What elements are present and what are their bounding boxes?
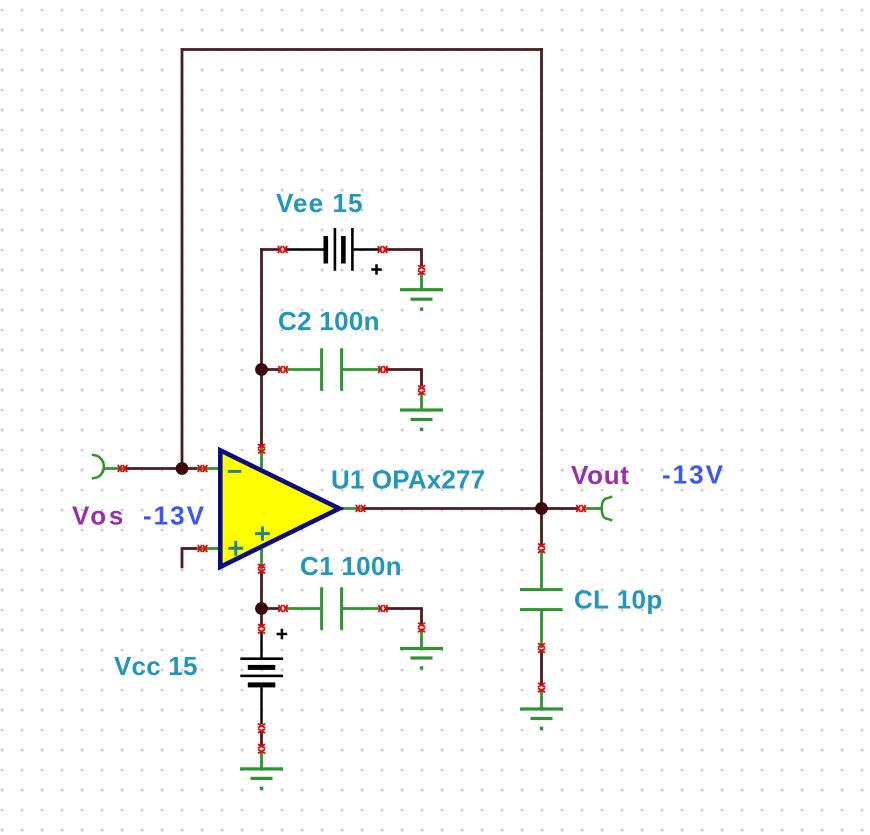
wire op-amp output to node B: [364, 507, 542, 510]
wire battery Vee right to ground: [385, 248, 422, 266]
pin marker battery Vcc top: [258, 624, 265, 633]
battery Vcc top lead: [260, 632, 262, 658]
pin marker battery Vee left: [278, 246, 287, 253]
terminal Vos input pin: [104, 467, 126, 470]
op-amp U1 inverting input pin: [197, 467, 219, 470]
wire feedback left vertical: [181, 48, 184, 468]
wire CL bottom to ground: [540, 651, 543, 685]
pin marker Vcc ground: [258, 744, 265, 753]
svg-text:Vout: Vout: [571, 460, 630, 490]
pin marker C2 ground: [418, 386, 425, 395]
capacitor C2 left pin: [286, 368, 320, 371]
wire battery Vcc minus to ground: [260, 732, 263, 746]
wire node B to Vout terminal: [542, 507, 579, 510]
ground for C2: [420, 392, 423, 409]
pin marker Vout terminal: [576, 505, 585, 512]
svg-text:Vee 15: Vee 15: [276, 188, 364, 218]
battery Vee plate 3 (thick short): [341, 236, 346, 264]
pin marker op-amp inverting input: [198, 465, 207, 472]
op-amp U1 non-inverting input pin: [197, 547, 219, 550]
ground for CL: [540, 690, 543, 708]
battery Vee right lead: [354, 248, 380, 250]
battery Vcc bottom lead: [260, 687, 262, 724]
ground for Vee: [420, 272, 423, 289]
capacitor C1 plate 1: [320, 587, 323, 630]
capacitor CL plate 1: [520, 588, 563, 591]
battery Vee plate 1 (thick short): [324, 236, 329, 264]
pin marker op-amp non-inverting input: [198, 545, 207, 552]
wire non-inverting input L stub: [182, 549, 199, 569]
battery Vee plate 4 (thin long): [351, 228, 354, 271]
op-amp U1 plus symbol (non-inverting input): [228, 541, 243, 556]
pin marker CL ground: [538, 683, 545, 692]
wire op-amp bottom pin down to node C: [260, 571, 263, 609]
wire feedback right vertical: [540, 48, 543, 508]
battery Vcc plate 1 (thin long): [240, 657, 283, 660]
capacitor C2 right pin: [343, 368, 382, 371]
capacitor C2 plate 1: [320, 348, 323, 391]
op-amp U1 minus symbol: [228, 470, 242, 473]
battery Vcc plate 3 (thin long): [240, 675, 283, 678]
svg-text:C2 100n: C2 100n: [278, 306, 380, 336]
pin marker C1 ground: [418, 623, 425, 632]
svg-text:C1 100n: C1 100n: [300, 551, 402, 581]
pin marker C2 right: [378, 366, 387, 373]
svg-text:Vos: Vos: [72, 501, 126, 531]
terminal Vout pin: [584, 507, 602, 510]
svg-text:U1 OPAx277: U1 OPAx277: [331, 465, 485, 495]
battery Vee plus sign: [371, 264, 381, 275]
capacitor CL bottom pin: [540, 611, 543, 648]
pin marker op-amp bottom power: [258, 564, 265, 573]
op-amp U1 triangle body: [220, 450, 339, 567]
wire node C down to battery Vcc: [260, 609, 263, 626]
pin marker CL top: [538, 544, 545, 553]
capacitor C1 plate 2: [340, 587, 343, 630]
pin marker Vos terminal: [118, 465, 127, 472]
ground for Vcc: [260, 751, 263, 768]
pin marker C1 left: [278, 605, 287, 612]
wire C1 right to ground: [386, 607, 422, 624]
wire node C2-left link: [262, 368, 280, 371]
wire feedback top horizontal: [181, 48, 543, 51]
junction node C (C1 / Vcc): [255, 602, 268, 615]
op-amp U1 bottom power pin: [260, 549, 263, 570]
ground for C1: [420, 630, 423, 647]
battery Vee left lead: [285, 248, 324, 250]
capacitor C1 left pin: [286, 607, 320, 610]
pin marker C2 left: [278, 366, 287, 373]
capacitor CL top pin: [540, 550, 543, 588]
junction node A (inverting input): [176, 462, 189, 475]
capacitor C2 plate 2: [340, 348, 343, 391]
capacitor C1 right pin: [343, 607, 382, 610]
wire battery Vee left corner link: [260, 248, 279, 251]
op-amp U1 output pin: [341, 507, 363, 510]
svg-text:-13V: -13V: [143, 501, 206, 531]
pin marker Vee ground: [418, 265, 425, 274]
pin marker op-amp top power: [258, 444, 265, 453]
battery Vcc plate 2 (thick short): [248, 665, 275, 670]
pin marker battery Vcc bottom: [258, 724, 265, 733]
junction node B (output): [535, 502, 548, 515]
pin marker op-amp output: [356, 505, 365, 512]
junction node at C2: [255, 363, 268, 376]
wire node B down to CL: [540, 509, 543, 546]
pin marker CL bottom: [538, 643, 545, 652]
battery Vcc plate 4 (thick short): [248, 682, 275, 687]
wire V- rail: battery corner down to op-amp top pin: [260, 248, 263, 445]
wire node C1-left link: [262, 607, 280, 610]
svg-text:CL 10p: CL 10p: [574, 585, 663, 615]
battery Vee plate 2 (thin long): [334, 228, 337, 271]
wire C2 right to ground: [386, 368, 422, 386]
terminal Vos arc: [92, 455, 104, 479]
capacitor CL plate 2: [520, 608, 563, 611]
pin marker battery Vee right: [378, 246, 387, 253]
op-amp U1 top power pin: [260, 448, 263, 469]
wire input Vos to node A: [125, 467, 199, 470]
terminal Vout arc: [602, 496, 613, 520]
battery Vcc plus sign: [277, 629, 288, 640]
op-amp U1 plus symbol (positive supply): [255, 526, 270, 540]
pin marker C1 right: [378, 605, 387, 612]
svg-text:-13V: -13V: [662, 460, 725, 490]
svg-text:Vcc 15: Vcc 15: [114, 651, 198, 681]
